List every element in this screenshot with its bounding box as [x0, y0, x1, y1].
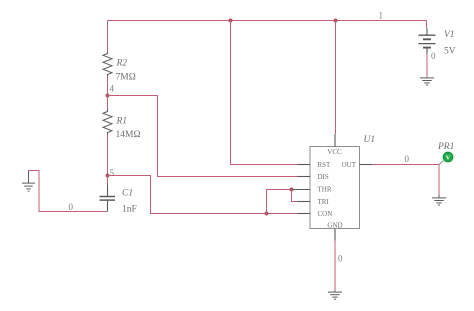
svg-text:5V: 5V [444, 47, 456, 57]
wire: R2 to node 4 [107, 77, 109, 96]
svg-text:C1: C1 [122, 189, 133, 199]
wire: node 4 to DIS pin [108, 96, 298, 177]
wire: RST net from top rail [231, 21, 298, 165]
svg-text:0: 0 [405, 154, 410, 164]
wire: R1 to node 5 [107, 135, 109, 176]
pin OUT stub [360, 164, 373, 166]
wire: rail down to R2 [107, 21, 109, 52]
node 4 junction [106, 94, 110, 98]
wire: node 5 to THR/TRI/CON column [108, 176, 298, 214]
svg-text:V: V [446, 155, 451, 162]
svg-text:V1: V1 [444, 30, 455, 40]
pin RST stub [298, 164, 311, 166]
junction: THR line [290, 188, 294, 192]
junction: top rail / RST drop [229, 19, 233, 23]
wire: rail to battery top [426, 21, 428, 29]
ground (battery) [420, 78, 434, 85]
capacitor C1 [100, 185, 116, 212]
svg-text:PR1: PR1 [437, 142, 454, 152]
wire: top power rail (net 1) [108, 20, 427, 22]
svg-text:14MΩ: 14MΩ [116, 130, 141, 140]
ground (chip) [328, 291, 342, 300]
ground (probe) [432, 195, 446, 205]
svg-text:THR: THR [318, 186, 332, 194]
ground (left) [22, 171, 35, 192]
pin THR stub [293, 189, 311, 191]
resistor R2 [103, 52, 112, 77]
svg-text:GND: GND [327, 222, 342, 230]
svg-text:1nF: 1nF [122, 205, 137, 215]
svg-text:0: 0 [69, 202, 74, 212]
pin GND stub [334, 229, 336, 241]
junction: top rail / VCC drop [334, 19, 338, 23]
svg-text:1: 1 [379, 11, 384, 21]
battery V1 (5V DC source) [419, 29, 436, 54]
pin TRI stub [298, 201, 311, 203]
wire: OUT net to probe corner [372, 165, 439, 196]
wire: left ground to C1 bottom (net 0) [29, 171, 108, 212]
wire: THR junction down to TRI [292, 190, 298, 202]
svg-text:U1: U1 [364, 135, 376, 145]
pin DIS stub [298, 176, 311, 178]
wire: battery to ground (net 0) [426, 54, 428, 78]
svg-text:0: 0 [338, 254, 343, 264]
svg-text:OUT: OUT [342, 161, 357, 169]
pin CON stub [298, 213, 311, 215]
svg-text:DIS: DIS [318, 173, 329, 181]
junction: CON line riser [265, 212, 269, 216]
probe PR1 [439, 150, 455, 164]
svg-text:CON: CON [318, 210, 333, 218]
svg-text:7MΩ: 7MΩ [116, 73, 136, 83]
svg-text:R2: R2 [116, 59, 128, 69]
wire: riser up to THR line [267, 190, 298, 214]
resistor R1 [103, 110, 112, 135]
node 5 junction [106, 174, 110, 178]
svg-text:5: 5 [110, 168, 115, 178]
wire: node 5 down to C1 [107, 176, 109, 185]
svg-text:4: 4 [110, 84, 115, 94]
op-amp/IC U1 (555 timer body) [293, 135, 373, 241]
wire: VCC net from top rail [335, 21, 337, 135]
wire: node 4 down to R1 [107, 96, 109, 110]
svg-text:R1: R1 [116, 117, 128, 127]
svg-text:0: 0 [431, 51, 436, 61]
svg-text:VCC: VCC [327, 148, 342, 156]
pin VCC stub [334, 135, 336, 147]
wire: chip GND down to ground [334, 241, 336, 291]
svg-text:RST: RST [318, 161, 332, 169]
svg-text:TRI: TRI [318, 198, 330, 206]
